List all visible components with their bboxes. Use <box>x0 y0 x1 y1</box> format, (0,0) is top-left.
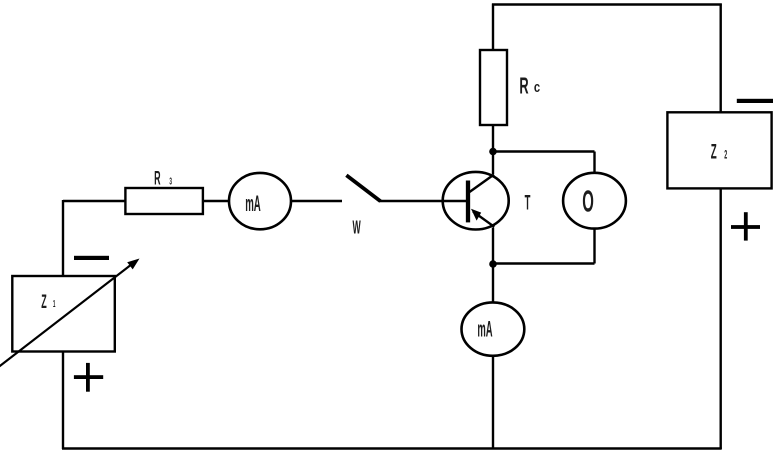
svg-text:mA: mA <box>477 317 492 342</box>
svg-text:Z: Z <box>41 291 46 313</box>
svg-text:2: 2 <box>724 148 727 161</box>
svg-text:3: 3 <box>169 175 172 187</box>
svg-text:T: T <box>525 192 531 215</box>
svg-text:W: W <box>352 218 360 238</box>
svg-text:Z: Z <box>711 139 717 163</box>
svg-text:O: O <box>582 185 594 219</box>
svg-text:R: R <box>519 73 529 99</box>
svg-text:1: 1 <box>53 298 56 310</box>
svg-text:c: c <box>534 78 540 95</box>
svg-text:mA: mA <box>245 190 261 216</box>
svg-text:R: R <box>154 168 161 190</box>
